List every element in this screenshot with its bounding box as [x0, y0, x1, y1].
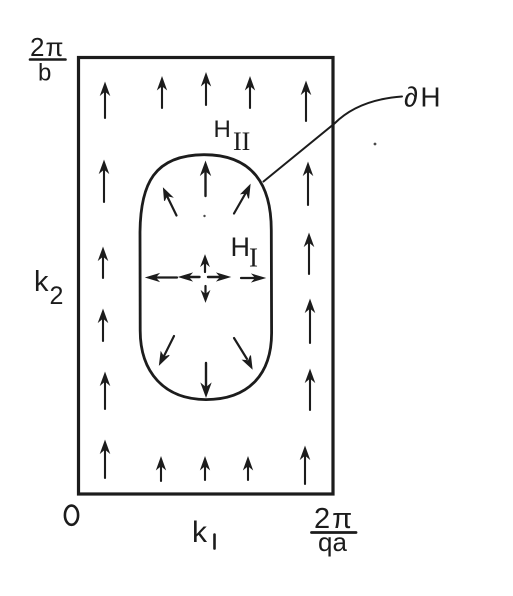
spin up arrow left col 2	[100, 161, 108, 202]
subscript 1 of k1	[213, 535, 216, 549]
spin up arrow left col 5	[101, 373, 109, 409]
spin up arrow right col 6	[301, 447, 309, 484]
zone boundary box	[79, 58, 334, 495]
spin up arrow right col 2	[304, 163, 312, 205]
stadium down-left diagonal arrow	[160, 336, 175, 365]
spin up arrow left col 4	[99, 310, 107, 341]
spin up arrow top row 4	[246, 78, 254, 109]
stadium up-left diagonal arrow	[164, 189, 177, 216]
label O origin	[65, 506, 78, 525]
spin up arrow left col 3	[99, 248, 107, 278]
svg-text:qa: qa	[318, 527, 347, 557]
svg-text:H: H	[231, 232, 251, 262]
spin up arrow top row 2	[158, 78, 166, 109]
svg-text:k: k	[192, 516, 208, 549]
spin up arrow top row 1	[101, 83, 109, 118]
speck dot in stadium	[203, 215, 205, 217]
axis label 2pi/b fraction bar	[30, 58, 66, 61]
center cross mid-left arrow	[180, 273, 200, 280]
spin up arrow top row 5	[302, 82, 310, 121]
speck dot near dH	[374, 143, 377, 146]
spin up arrow right col 5	[306, 370, 314, 410]
stadium down-right diagonal arrow	[234, 338, 252, 369]
spin up arrow left col 6	[101, 441, 109, 478]
svg-text:k: k	[34, 266, 49, 298]
leader line from dH label to stadium	[264, 97, 403, 182]
svg-text:b: b	[38, 60, 51, 87]
stadium top center up arrow	[201, 162, 210, 196]
stadium bottom center down arrow	[201, 363, 210, 397]
spin up arrow bottom row 2	[157, 458, 165, 482]
center cross small up arrow	[201, 256, 209, 273]
stadium up-right diagonal arrow	[234, 185, 250, 214]
spin up arrow bottom row 3	[201, 458, 209, 481]
spin up arrow bottom row 4	[244, 458, 252, 481]
svg-text:2π: 2π	[30, 32, 63, 62]
svg-text:II: II	[233, 127, 250, 156]
center cross far-left arrow	[147, 274, 178, 281]
center cross far-right arrow	[241, 274, 265, 281]
spin up arrow top row 3	[202, 74, 210, 106]
spin up arrow right col 3	[305, 234, 313, 274]
svg-text:∂H: ∂H	[404, 82, 443, 113]
domain wall dH stadium curve	[140, 155, 272, 400]
spin up arrow right col 4	[306, 300, 314, 343]
fraction bar of 2pi/qa	[312, 531, 357, 534]
svg-text:I: I	[249, 243, 258, 273]
center cross mid-right arrow	[208, 273, 230, 280]
svg-text:2: 2	[50, 282, 64, 310]
svg-text:H: H	[214, 116, 231, 143]
center cross small down arrow	[202, 286, 210, 302]
